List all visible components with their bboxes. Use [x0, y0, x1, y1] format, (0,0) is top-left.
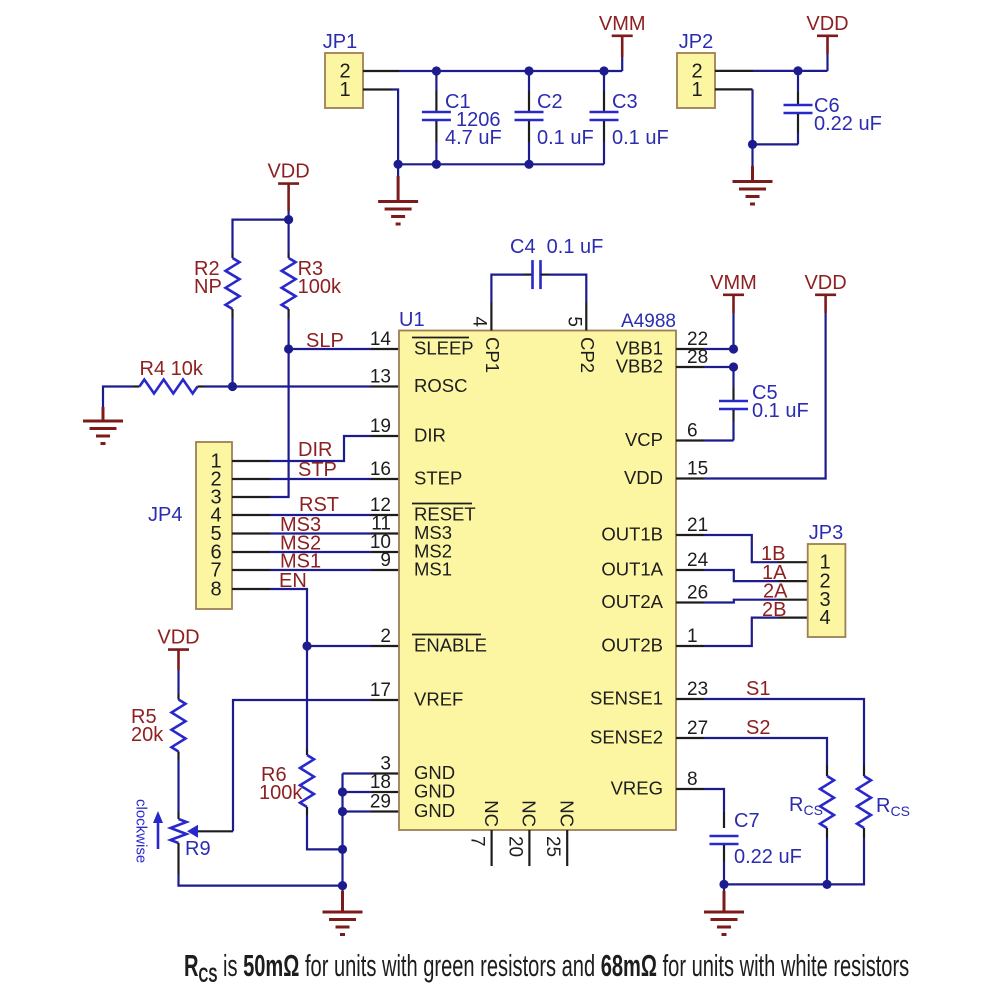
capacitor C5 — [719, 367, 809, 441]
wire ENABLE net to U1 pin2 — [307, 645, 371, 647]
svg-text:R9: R9 — [185, 838, 211, 860]
wire R4 to ROSC junction — [204, 385, 233, 387]
wire VCP net — [704, 439, 734, 441]
node junction VBB2 — [729, 362, 738, 371]
wire C6 bottom to JP2 pin1 — [753, 89, 799, 144]
svg-text:STEP: STEP — [414, 468, 462, 489]
U1 pin 10 MS2 — [370, 532, 452, 562]
VMM power symbol right — [710, 272, 757, 295]
ground symbol left of R4 — [102, 407, 105, 421]
svg-text:2: 2 — [380, 626, 391, 647]
svg-text:19: 19 — [370, 416, 391, 437]
svg-text:CP1: CP1 — [482, 337, 503, 373]
wire GND pin29 — [371, 810, 399, 812]
svg-text:1: 1 — [687, 626, 698, 647]
svg-text:4: 4 — [469, 316, 490, 327]
wire R2 to ROSC net — [231, 318, 233, 387]
wire RST net JP4 pin4 to U1 pin12 — [270, 514, 371, 516]
resistor R3 — [282, 220, 342, 318]
svg-text:27: 27 — [687, 718, 708, 739]
svg-text:0.22 uF: 0.22 uF — [734, 846, 802, 868]
svg-text:A4988: A4988 — [621, 311, 676, 332]
svg-text:VMM: VMM — [599, 13, 646, 35]
svg-text:9: 9 — [380, 550, 391, 571]
wire RCS left to ground rail — [826, 838, 828, 884]
U1 pin 16 STEP — [370, 459, 462, 489]
svg-text:26: 26 — [687, 583, 708, 604]
svg-text:U1: U1 — [399, 309, 425, 331]
svg-text:STP: STP — [298, 459, 337, 481]
wire SLEEP net — [289, 348, 371, 350]
svg-text:VREF: VREF — [414, 689, 463, 710]
wire R6 bottom to GND net — [307, 815, 343, 849]
svg-text:NC: NC — [557, 800, 578, 827]
U1 pin 23 SENSE1 — [590, 679, 708, 709]
svg-text:13: 13 — [370, 367, 391, 388]
U1 pin 17 VREF — [370, 680, 463, 710]
svg-text:17: 17 — [370, 680, 391, 701]
JP1 pin 1 stub — [363, 88, 392, 90]
svg-text:ROSC: ROSC — [414, 375, 467, 396]
svg-text:SENSE2: SENSE2 — [590, 727, 663, 748]
U1 pin 8 VREG — [611, 769, 698, 799]
wire OUT2A to JP3 pin3 — [676, 601, 704, 603]
JP4 pin stubs — [232, 461, 270, 589]
potentiometer R9 — [171, 812, 234, 875]
capacitor C1 — [422, 71, 502, 164]
svg-text:ENABLE: ENABLE — [414, 635, 487, 656]
JP1 pin 2 stub — [363, 70, 399, 72]
resistor R4 — [133, 358, 204, 394]
capacitor C2 — [515, 71, 594, 164]
node junction ground rail bottom — [338, 881, 347, 890]
node junction C1 top — [432, 66, 441, 75]
U1 pin 24 OUT1A — [601, 550, 708, 580]
svg-text:VBB2: VBB2 — [616, 356, 663, 377]
node junction SLP — [284, 344, 293, 353]
svg-text:OUT2B: OUT2B — [601, 635, 663, 656]
ground symbol bottom center — [341, 886, 343, 891]
svg-text:18: 18 — [370, 772, 391, 793]
U1 pin 22 VBB1 — [616, 329, 708, 359]
U1 pin 15 VDD — [624, 459, 708, 489]
svg-text:CP2: CP2 — [577, 337, 598, 373]
wire EN net JP4 pin8 down to ENABLE — [270, 589, 307, 646]
U1 pin 19 DIR — [370, 416, 446, 446]
U1 pin 4 CP1 vertical — [469, 302, 504, 373]
wire MS2 net — [270, 551, 371, 553]
svg-text:C3: C3 — [612, 91, 638, 113]
wire R3 to SLP net — [288, 318, 290, 349]
node junction C7 ground — [719, 880, 728, 889]
svg-text:VREG: VREG — [611, 778, 663, 799]
U1 pin 11 MS3 — [371, 514, 452, 544]
JP1 power-input connector — [325, 53, 363, 108]
U1 pin 3 GND — [380, 754, 455, 784]
wire S1 net SENSE1 — [676, 698, 704, 700]
U1 pin 25 NC — [542, 800, 577, 866]
JP2 pin 2 stub — [715, 70, 753, 72]
svg-text:OUT2A: OUT2A — [601, 591, 663, 612]
wire MS1 net — [270, 569, 371, 571]
capacitor C7 — [710, 810, 802, 884]
svg-text:8: 8 — [687, 769, 698, 790]
svg-text:OUT1B: OUT1B — [601, 524, 663, 545]
node junction RCS left — [822, 880, 831, 889]
U1 pin 2 ENABLE — [380, 626, 487, 656]
wire OUT1A to JP3 pin2 — [676, 569, 704, 571]
VDD power symbol upper left — [267, 161, 309, 184]
svg-text:15: 15 — [687, 459, 708, 480]
svg-text:21: 21 — [687, 515, 708, 536]
svg-text:4.7 uF: 4.7 uF — [445, 127, 502, 149]
U1 pin 9 MS1 — [380, 550, 452, 580]
svg-text:2B: 2B — [762, 599, 786, 621]
wire VDD to R2 branch — [233, 220, 289, 253]
node junction C2 bottom — [524, 160, 533, 169]
U1 pin 18 GND — [370, 772, 455, 802]
wire R9 bottom to ground rail — [179, 875, 343, 886]
svg-text:RCS is 50mΩ for units with gre: RCS is 50mΩ for units with green resisto… — [184, 948, 909, 987]
wire JP2 pin2 to VDD — [753, 70, 828, 72]
svg-text:100k: 100k — [259, 782, 303, 804]
op IC U1 A4988 body — [399, 331, 676, 831]
svg-text:VDD: VDD — [806, 13, 848, 35]
wire DIR net JP4 pin1 to U1 pin19 — [270, 436, 371, 461]
ground symbol below JP1 — [397, 164, 399, 176]
svg-text:24: 24 — [687, 550, 709, 571]
wire GND pin3 — [343, 772, 372, 774]
U1 pin 7 NC — [467, 800, 502, 866]
node junction ROSC — [228, 382, 237, 391]
U1 pin 1 OUT2B — [601, 626, 697, 656]
U1 pin 13 ROSC — [370, 367, 468, 397]
svg-text:28: 28 — [687, 347, 708, 368]
svg-text:7: 7 — [467, 836, 488, 847]
wire R5 to R9 — [177, 760, 179, 812]
wire ROSC net — [233, 385, 372, 387]
svg-text:14: 14 — [370, 329, 392, 350]
node junction JP2 ground — [748, 140, 757, 149]
svg-text:VDD: VDD — [804, 272, 846, 294]
U1 pin 28 VBB2 — [616, 347, 708, 377]
VDD power symbol lower left — [157, 627, 199, 650]
U1 pin 20 NC — [504, 800, 539, 866]
wire SLP vertical to JP4 pin3 — [270, 349, 289, 497]
VDD power symbol mid right — [804, 272, 846, 295]
svg-text:C7: C7 — [734, 810, 760, 832]
svg-text:8: 8 — [210, 579, 221, 601]
svg-text:NP: NP — [194, 276, 222, 298]
svg-text:DIR: DIR — [414, 425, 446, 446]
node junction ENABLE — [302, 641, 311, 650]
U1 pin 21 OUT1B — [601, 515, 708, 545]
svg-text:1: 1 — [691, 79, 702, 101]
wire bottom ground rail — [398, 163, 604, 165]
wire VDD net to U1 pin15 — [704, 313, 826, 479]
node junction GND29 — [338, 807, 347, 816]
wire VBB2 net — [676, 366, 704, 368]
wire R4 left to ground — [103, 387, 133, 408]
svg-text:S1: S1 — [746, 678, 770, 700]
svg-text:0.1 uF: 0.1 uF — [537, 127, 594, 149]
svg-text:5: 5 — [563, 316, 584, 327]
svg-text:4: 4 — [819, 607, 830, 629]
svg-text:VDD: VDD — [267, 161, 309, 183]
wire R9 wiper to VREF net — [233, 700, 371, 831]
svg-text:S2: S2 — [746, 717, 770, 739]
svg-text:1: 1 — [339, 79, 350, 101]
wire VBB1 net — [676, 348, 704, 350]
svg-text:100k: 100k — [298, 276, 342, 298]
svg-text:JP2: JP2 — [679, 31, 713, 53]
svg-text:0.22 uF: 0.22 uF — [814, 113, 882, 135]
svg-text:0.1 uF: 0.1 uF — [752, 400, 809, 422]
resistor R2 — [194, 253, 240, 318]
node junction VBB1 — [729, 344, 738, 353]
resistor R6 — [259, 646, 314, 815]
arrow clockwise direction — [153, 811, 163, 849]
wire OUT2B to JP3 pin4 — [676, 645, 704, 647]
wire OUT1B to JP3 pin1 — [676, 534, 704, 536]
svg-text:VCP: VCP — [625, 429, 663, 450]
svg-text:16: 16 — [370, 459, 391, 480]
wire RCS right to ground rail — [724, 838, 864, 884]
U1 pin 27 SENSE2 — [590, 718, 708, 748]
svg-text:DIR: DIR — [298, 439, 332, 461]
resistor R5 — [131, 694, 186, 760]
svg-text:R4 10k: R4 10k — [140, 358, 204, 380]
note RCS value text — [184, 948, 909, 987]
VMM power symbol top — [621, 57, 623, 71]
svg-text:0.1 uF: 0.1 uF — [612, 127, 669, 149]
U1 pin 5 CP2 vertical — [563, 302, 598, 373]
wire VREG to C7 — [676, 788, 704, 790]
svg-text:NC: NC — [481, 800, 502, 827]
ground symbol below C7 — [723, 884, 725, 891]
wire S2 net SENSE2 — [676, 737, 704, 739]
svg-text:SLEEP: SLEEP — [414, 338, 474, 359]
svg-text:20k: 20k — [131, 724, 164, 746]
JP4 control header connector — [196, 442, 232, 609]
svg-text:JP4: JP4 — [148, 504, 182, 526]
JP2 logic-power connector — [677, 53, 715, 108]
svg-text:GND: GND — [414, 781, 455, 802]
U1 pin 29 GND — [370, 792, 455, 822]
wire MS3 net — [270, 532, 371, 534]
svg-text:SLP: SLP — [306, 330, 344, 352]
node junction VDD branch — [284, 215, 293, 224]
U1 pin 14 SLEEP — [370, 329, 474, 359]
JP3 motor output connector — [808, 544, 846, 637]
resistor RCS left — [789, 765, 834, 838]
node junction C1 bottom — [432, 160, 441, 169]
node junction R6-GND — [338, 845, 347, 854]
wire STP net JP4 pin2 to U1 pin16 — [270, 478, 371, 480]
svg-text:GND: GND — [414, 800, 455, 821]
U1 pin 12 RESET — [370, 495, 476, 525]
U1 pin 26 OUT2A — [601, 583, 708, 613]
capacitor C6 — [784, 71, 882, 144]
resistor RCS right — [857, 765, 910, 838]
capacitor C3 — [590, 71, 669, 164]
svg-text:C2: C2 — [537, 91, 563, 113]
wire GND pins vertical — [341, 774, 343, 886]
wire JP1 pin1 to ground rail — [392, 90, 398, 165]
svg-text:EN: EN — [279, 570, 307, 592]
JP2 pin 1 stub — [715, 88, 753, 90]
svg-text:23: 23 — [687, 679, 708, 700]
node junction C2 top — [524, 66, 533, 75]
node junction GND18 — [338, 787, 347, 796]
wire GND pin18 — [371, 791, 399, 793]
svg-text:VMM: VMM — [710, 272, 757, 294]
svg-text:6: 6 — [687, 421, 698, 442]
ground symbol below JP2 — [751, 144, 753, 166]
svg-text:SENSE1: SENSE1 — [590, 688, 663, 709]
node junction C3 top — [599, 66, 608, 75]
node junction C6 top — [793, 66, 802, 75]
svg-text:JP1: JP1 — [323, 31, 357, 53]
node junction ground rail left — [394, 160, 403, 169]
svg-text:RST: RST — [299, 494, 339, 516]
VDD power symbol top right — [826, 54, 828, 71]
svg-text:25: 25 — [542, 836, 563, 857]
svg-text:C4 0.1 uF: C4 0.1 uF — [510, 236, 603, 258]
svg-text:NC: NC — [519, 800, 540, 827]
svg-text:VDD: VDD — [624, 467, 663, 488]
svg-text:OUT1A: OUT1A — [601, 559, 663, 580]
svg-text:20: 20 — [504, 836, 525, 857]
wire VMM top rail — [399, 70, 622, 72]
U1 pin 6 VCP — [625, 421, 698, 451]
svg-text:29: 29 — [370, 792, 391, 813]
svg-text:clockwise: clockwise — [133, 799, 150, 863]
capacitor C4 — [491, 236, 603, 302]
svg-text:JP3: JP3 — [809, 522, 843, 544]
svg-text:VDD: VDD — [157, 627, 199, 649]
svg-text:MS1: MS1 — [414, 559, 452, 580]
